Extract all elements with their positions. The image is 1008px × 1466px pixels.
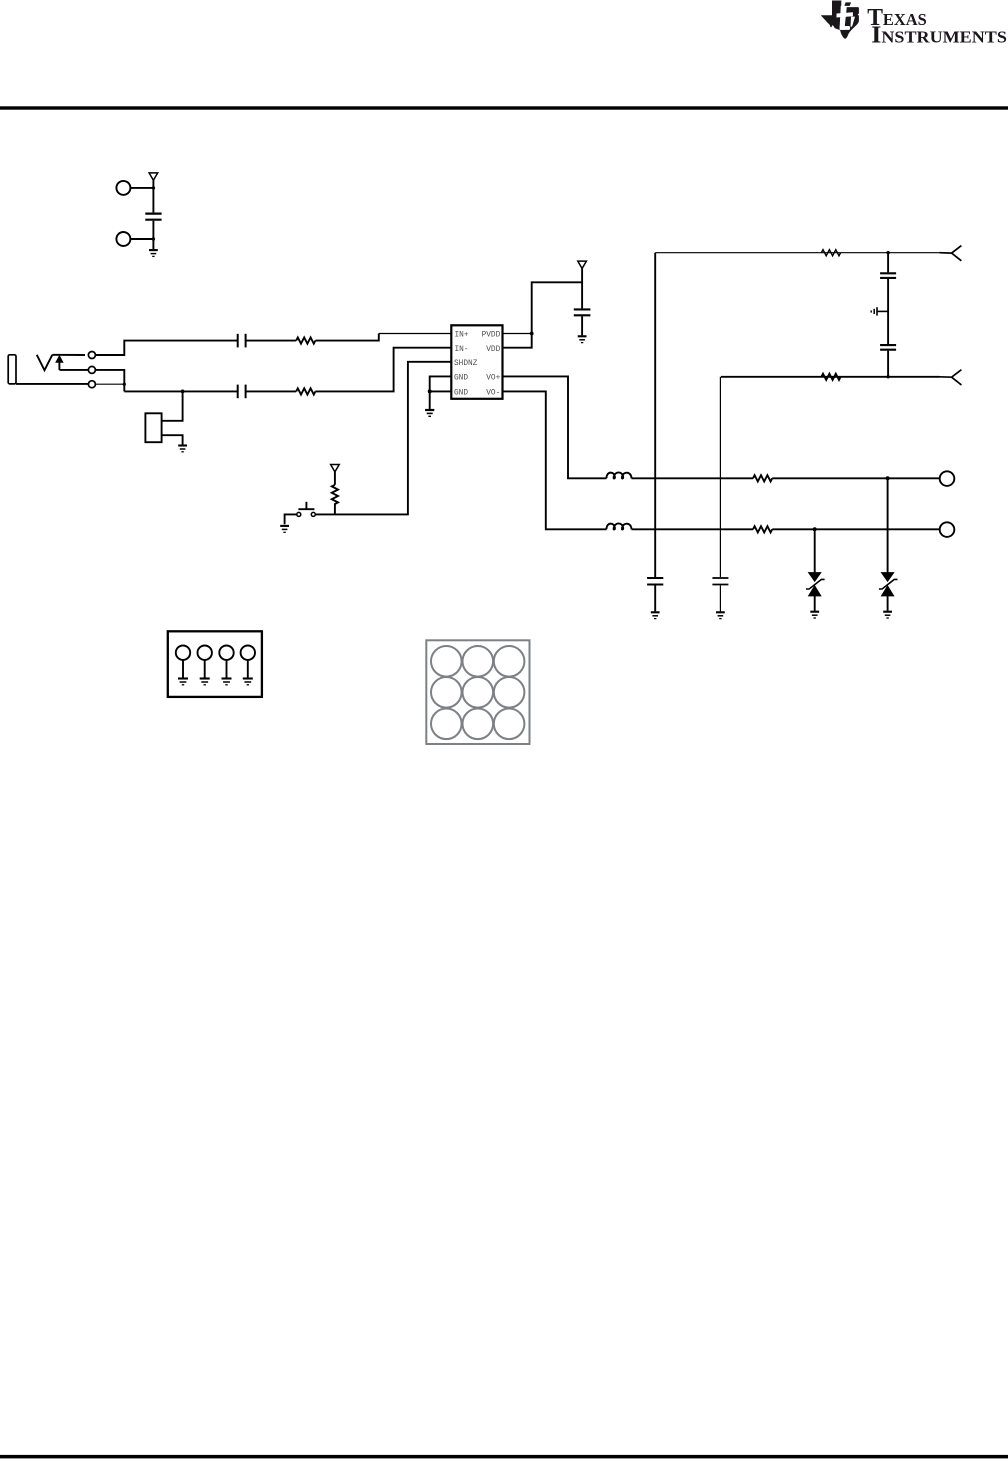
wire cap chain top: [887, 253, 889, 273]
wire GND pins: [430, 376, 452, 409]
power flag VCC2: [331, 465, 340, 485]
header rule: [0, 106, 1008, 109]
node junction bottom rail: [886, 375, 889, 378]
resistor R1: [296, 338, 315, 344]
ground: [178, 679, 188, 685]
inductor L1: [606, 472, 631, 478]
svg-text:GND: GND: [454, 375, 468, 383]
node VCC-C junction: [152, 186, 155, 189]
svg-text:VO+: VO+: [486, 375, 500, 383]
wire to mic bias box: [162, 391, 183, 420]
capacitor C6: [712, 578, 728, 585]
connector P1 VO+: [940, 471, 955, 486]
jack pin tip: [88, 352, 95, 359]
svg-text:IN-: IN-: [455, 346, 469, 354]
audio jack J2 barrel: [8, 355, 16, 384]
op-amp U1 TPA2010 box: [451, 325, 502, 399]
capacitor C1: [145, 214, 161, 220]
wire: [581, 316, 583, 335]
power flag VCC3: [578, 261, 587, 308]
wire VO- rail: [632, 528, 754, 530]
TVS diode D2: [879, 478, 898, 611]
ground: [425, 410, 434, 416]
wire VO+ rail: [632, 477, 754, 479]
capacitor C2: [238, 334, 246, 348]
wire: [719, 586, 721, 612]
ground: [178, 446, 187, 452]
wire: [772, 477, 940, 479]
node GND-C junction: [152, 237, 155, 240]
test point TP4: [241, 646, 255, 678]
capacitor C3: [238, 385, 246, 399]
test point TP2: [198, 646, 212, 678]
resistor R6 thin: [821, 250, 840, 256]
connector arrow K1: [940, 246, 962, 261]
wire IN- rail: [124, 390, 237, 392]
ground: [810, 612, 819, 618]
capacitor C5: [647, 578, 663, 585]
wire box to ground: [162, 435, 183, 444]
node mic bias junction: [181, 390, 185, 394]
wire PVDD stub: [503, 333, 532, 335]
audio jack J2 ring arrow: [56, 356, 63, 370]
ground: [149, 250, 158, 256]
capacitor C8: [880, 345, 896, 350]
wire branch VO+ up rail: [654, 253, 656, 577]
connector P2 VO-: [940, 522, 955, 537]
capacitor C4: [574, 309, 591, 315]
svg-text:GND: GND: [454, 389, 468, 397]
ground: [883, 612, 892, 618]
wire VDD net: [503, 282, 583, 347]
wire VO- down: [503, 391, 607, 529]
wire cap chain middle: [887, 279, 889, 344]
node TVS D1 junction: [813, 527, 817, 531]
node sleeve junction: [123, 383, 126, 386]
node TVS D2 junction: [886, 476, 890, 480]
wire sleeve stub: [95, 383, 124, 385]
wire ring to pin: [59, 369, 88, 371]
wire cap chain bottom: [887, 351, 889, 377]
inductor L2: [606, 523, 631, 529]
wire VO+ down: [503, 376, 607, 478]
ground: [200, 679, 210, 685]
power flag VCC1: [149, 173, 158, 213]
wire branch VO- up rail thin: [719, 377, 721, 577]
wire SHDNZ net: [315, 362, 451, 515]
resistor R2: [296, 388, 315, 394]
jack pin sleeve: [88, 381, 95, 388]
wire: [246, 390, 296, 392]
switch SW1 pushbutton: [297, 502, 316, 517]
footer rule: [0, 1455, 1008, 1459]
svg-text:VO-: VO-: [486, 389, 500, 397]
bottom line-out rail: [721, 376, 940, 378]
ground: [280, 526, 289, 532]
resistor R4: [753, 475, 772, 481]
connector J1 pin 2: [116, 232, 130, 246]
capacitor C7: [880, 273, 896, 278]
mic bias box MK1: [145, 413, 161, 442]
svg-text:Instruments: Instruments: [871, 22, 1007, 49]
connector arrow K2: [940, 370, 962, 385]
TI logo bug: [821, 1, 859, 39]
svg-text:PVDD: PVDD: [482, 332, 501, 340]
audio jack J2 tip contact V: [37, 355, 53, 371]
resistor R5: [753, 526, 772, 532]
test point TP1: [176, 646, 190, 678]
node GND junction: [428, 389, 432, 393]
wire IN+ bend: [95, 341, 237, 355]
jack pin ring: [88, 366, 95, 373]
svg-text:IN+: IN+: [455, 332, 469, 340]
test point block TP1-TP4: [168, 631, 262, 697]
ground: [578, 336, 587, 342]
top line-out rail + thin: [655, 252, 939, 254]
wire tip to pin: [52, 354, 85, 356]
wire IN- into IC: [315, 348, 451, 392]
ground: [651, 612, 660, 618]
wire: [246, 340, 296, 342]
ground: [222, 679, 232, 685]
wire IN+ into IC: [315, 334, 378, 341]
wire: [654, 586, 656, 612]
test point TP3: [219, 646, 233, 678]
wire ring down: [95, 370, 124, 392]
ground: [243, 679, 253, 685]
wire: [152, 221, 154, 249]
wire: [131, 187, 154, 189]
jack sleeve wire: [16, 383, 88, 385]
wire switch to ground: [285, 514, 297, 524]
node junction top rail: [886, 251, 889, 254]
ground sideways: [871, 307, 888, 315]
wire IN+ thin: [379, 333, 452, 335]
ground: [716, 612, 725, 618]
resistor R3 pullup: [332, 485, 338, 504]
wire: [334, 503, 336, 514]
connector J1 pin 1: [116, 181, 130, 195]
wire: [131, 238, 154, 240]
TVS diode D1: [806, 529, 825, 611]
svg-text:VDD: VDD: [486, 346, 500, 354]
svg-text:SHDNZ: SHDNZ: [454, 360, 478, 368]
package outline 3x3 ball grid: [426, 640, 529, 744]
wire: [772, 528, 940, 530]
resistor R7: [821, 374, 840, 380]
node PVDD junction: [530, 332, 534, 336]
